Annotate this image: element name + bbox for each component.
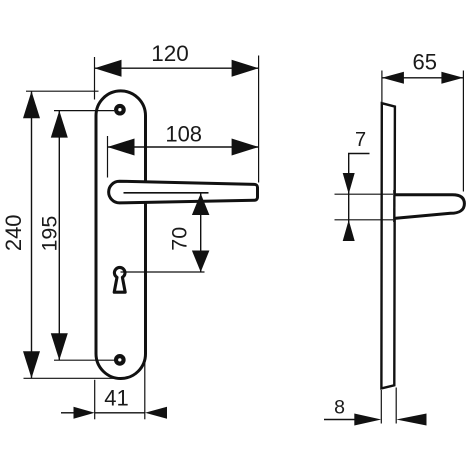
top screw hole <box>114 104 126 116</box>
extension line: handle bottom (7 dim) <box>335 219 394 221</box>
extension line: plate bottom right (41 dim) <box>144 361 146 419</box>
arrowhead 195 bottom <box>51 333 68 360</box>
arrowhead 41 left <box>74 407 95 419</box>
extension line: top screw (195 dim) <box>54 110 114 112</box>
arrowhead 120 left <box>95 60 122 77</box>
leader line 7 <box>349 154 370 195</box>
svg-text:65: 65 <box>412 49 436 74</box>
extension line: plate bottom left (41 dim) <box>94 380 96 420</box>
handle inner edge line <box>124 192 209 194</box>
arrowhead 70 bottom <box>192 251 210 273</box>
plate front edge redrawn over handle joint <box>393 190 396 222</box>
arrowhead 108 left <box>108 139 135 156</box>
extension line: side plate left (65 dim) <box>381 71 383 103</box>
arrowhead 7 top <box>343 173 355 194</box>
arrowhead 41 right <box>145 407 167 419</box>
extension line: plate top (240 dim) <box>26 90 99 92</box>
backplate (side view) <box>381 103 395 388</box>
svg-text:8: 8 <box>334 397 345 419</box>
dimension line 65 <box>382 77 464 79</box>
extension line: plate back (8 dim) <box>380 390 382 424</box>
leader line 8 <box>324 419 355 421</box>
extension line: handle tip (65 dim) <box>462 71 464 192</box>
svg-text:195: 195 <box>38 216 62 252</box>
arrowhead 70 top <box>192 194 210 216</box>
extension line: plate bottom (240 dim) <box>24 377 123 379</box>
svg-text:41: 41 <box>104 386 128 411</box>
extension line: plate left edge (120 dim) <box>94 57 96 100</box>
keyhole <box>114 267 125 292</box>
dimension line 195 <box>58 111 60 361</box>
dimension line 240 <box>31 91 33 378</box>
arrowhead 65 left <box>382 72 404 84</box>
extension line: bottom screw (195 dim) <box>54 359 114 361</box>
arrowhead 7 bottom <box>343 220 355 241</box>
extension line: handle top (7 dim) <box>335 193 394 195</box>
dimension 41 leader line left <box>61 412 74 414</box>
arrowhead 8 left <box>354 414 381 426</box>
arrowhead 108 right <box>232 139 259 156</box>
arrowhead 120 right <box>232 60 259 77</box>
arrowhead 240 bottom <box>23 351 40 378</box>
svg-text:108: 108 <box>165 122 202 147</box>
lever handle (side view) <box>394 195 464 219</box>
extension line: keyhole centre (70 dim) <box>121 271 205 273</box>
dimension line 120 <box>95 67 259 69</box>
arrowhead 8 right <box>396 414 426 426</box>
arrowhead 65 right <box>441 72 463 84</box>
extension line: plate front (8 dim) <box>395 388 397 424</box>
dimension line 7 between arrows <box>348 194 350 241</box>
svg-text:240: 240 <box>1 214 26 251</box>
dimension line 70 <box>200 194 202 273</box>
svg-text:70: 70 <box>167 227 191 251</box>
svg-text:120: 120 <box>151 41 189 66</box>
arrowhead 195 top <box>51 111 68 138</box>
extension line: handle tip (120/108 dims) <box>258 56 260 183</box>
bottom screw hole <box>114 354 126 366</box>
dimension line 108 <box>108 146 259 148</box>
extension line: handle left edge (108 dim) <box>107 136 109 178</box>
dimension line 41 (between extensions) <box>95 412 145 414</box>
arrowhead 240 top <box>23 91 40 118</box>
svg-text:7: 7 <box>355 129 366 151</box>
lever handle (front view) <box>109 181 258 203</box>
backplate (front view) <box>96 91 146 379</box>
